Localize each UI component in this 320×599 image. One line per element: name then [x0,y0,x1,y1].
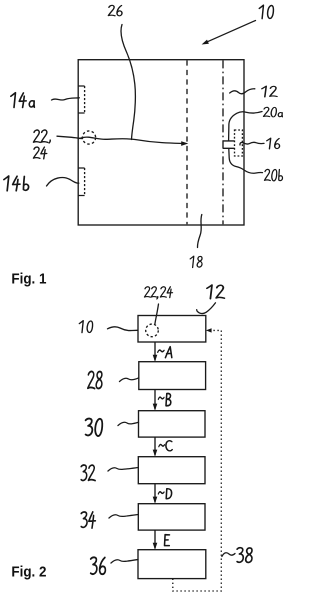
label 14a with leader [11,93,35,108]
label 36 with leader [91,557,106,574]
process box 32 [138,457,205,484]
label 16 with wavy leader [267,138,280,149]
dashed partition line (18 region boundary) [186,60,188,224]
label 10 with wavy leader [79,321,92,333]
arrow 10 pointing at box [205,21,256,43]
wire: curved lead 26 from label into box [121,25,135,140]
label 26 [108,5,122,15]
label 20a with curved leader [264,107,283,117]
process box 30 [139,411,206,437]
label 18 with wavy leader [190,256,202,267]
arrow D [154,484,156,503]
label 10 [259,5,273,18]
label 20b with curved leader [264,169,282,180]
dashed circle 22,24 in box [146,324,159,337]
wire: horizontal wavy conductor from circle to arrow [78,137,184,143]
process box 36 [138,550,206,579]
label 12 with leader [207,285,224,299]
arrow E [154,530,156,548]
dashed circle (sensor 22,24 location) [82,131,95,144]
dotted component box 16 [235,130,243,156]
label 22 with comma and leader [33,130,47,142]
label 34 with leader [81,512,95,528]
connector 14a (dashed-edge tab on left wall) [78,86,84,113]
connector 14b (dashed-edge tab on left wall) [78,168,84,196]
process box 10 [138,316,206,343]
arrow B [154,390,156,410]
dash-dot partition line (12/20 region boundary) [222,60,224,224]
label 32 with leader [81,465,95,481]
svg-text:Fig. 2: Fig. 2 [11,563,46,580]
arrow C [154,437,156,455]
process box 34 [138,504,205,530]
label 12 with wavy leader [262,86,277,97]
contact plates 20a/20b (two solid bars) [223,141,235,148]
label 30 with leader [86,419,103,436]
svg-text:Fig. 1: Fig. 1 [11,270,46,287]
process box 28 [139,362,206,390]
label 24 [33,147,46,159]
label 38 with tilde leader [237,548,252,563]
arrow A [154,342,156,361]
label 22,24 with leader [144,287,172,299]
label 14b with leader [4,176,29,191]
arrowhead at dashed line [181,141,188,146]
label 28 with leader [88,371,102,388]
dotted feedback loop 38 [173,330,222,591]
enclosure box 12 (Fig.1 main rectangle) [78,60,244,225]
